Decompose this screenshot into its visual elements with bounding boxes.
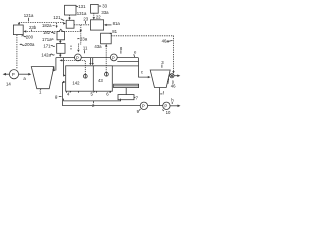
stub 171 down to feed line <box>59 53 61 55</box>
pump 8 <box>110 54 117 61</box>
wire dashed 23a vertical <box>78 25 80 50</box>
leader tilde 81 <box>110 32 112 35</box>
svg-text:142: 142 <box>72 81 80 86</box>
svg-text:121: 121 <box>53 15 61 20</box>
pump14 outlet left arrow <box>5 73 9 75</box>
box 121 <box>66 20 74 28</box>
box 22 (controller) <box>90 20 103 30</box>
leader tilde 200 <box>22 36 27 37</box>
leader tick 3 <box>161 65 163 68</box>
svg-text:P: P <box>12 72 15 77</box>
arrowhead into box200 right <box>23 30 26 32</box>
leader tick 121 <box>61 19 64 21</box>
svg-text:6: 6 <box>106 91 109 96</box>
svg-text:f: f <box>163 91 165 96</box>
box 7 <box>118 95 134 100</box>
arrowhead into box22 right <box>104 24 107 26</box>
arrowhead on 23a line <box>80 30 82 33</box>
arrowhead into box22 top <box>93 17 95 20</box>
svg-text:131a: 131a <box>77 11 87 16</box>
svg-text:1: 1 <box>39 90 42 95</box>
leader 182a arrow <box>53 23 57 26</box>
svg-text:b: b <box>53 66 56 71</box>
arrowhead into pump 11 <box>77 50 79 53</box>
double arrows into tank 43 <box>90 58 92 64</box>
box 81 <box>101 33 112 44</box>
leader tick 7 <box>134 96 135 98</box>
leader tick h <box>171 102 173 104</box>
svg-text:c: c <box>141 69 144 74</box>
box 131 <box>65 5 77 15</box>
wire dashed 81 to valve 46a <box>111 36 173 72</box>
leader tilde 171a <box>51 38 53 41</box>
svg-text:P: P <box>142 104 145 109</box>
recirculation riser g <box>61 82 63 106</box>
svg-text:121a: 121a <box>24 13 34 18</box>
sensor circle in tank 43 <box>105 72 109 76</box>
svg-text:P: P <box>164 104 167 109</box>
leader tilde 182 <box>51 32 55 33</box>
pump 14 <box>9 70 18 79</box>
tank divider wall <box>92 66 94 91</box>
riser b from hopper 1 <box>55 58 57 71</box>
leader tick 23 <box>85 21 87 24</box>
svg-text:14: 14 <box>6 81 11 86</box>
arrowhead c into hopper 3 <box>148 76 151 78</box>
svg-text:43a: 43a <box>94 44 102 49</box>
leader tick 46 <box>172 80 174 84</box>
svg-text:8: 8 <box>120 46 123 51</box>
hopper 3 bottom stem f <box>158 88 160 106</box>
svg-text:5: 5 <box>91 91 94 96</box>
leader tick 9 <box>139 109 140 111</box>
leader tick d <box>168 78 170 80</box>
leader tick f <box>160 93 162 95</box>
leader tick 1 <box>39 89 42 90</box>
wire dashed into box200 right (line 23b) <box>26 30 81 32</box>
leader tilde 142a <box>50 54 54 55</box>
collector vertical to hopper 3 (line c) <box>139 58 149 78</box>
pump14 to hopper1 line a <box>19 73 29 75</box>
arrowhead down to valve 46 <box>172 71 174 74</box>
wire dashed 121 right to box 22 <box>74 24 90 26</box>
svg-text:P: P <box>112 55 115 60</box>
svg-text:43: 43 <box>98 78 103 83</box>
svg-text:142a: 142a <box>41 53 51 58</box>
arrowhead into feeder 171 <box>59 41 61 43</box>
arrowhead b <box>53 69 56 72</box>
branch into tank 142 <box>63 58 65 76</box>
arrowhead left on sensor line <box>60 59 63 61</box>
channel bottom line <box>112 65 138 67</box>
connector 182 to 171 <box>59 40 61 42</box>
arrowhead onto feed line <box>59 55 61 57</box>
svg-text:P: P <box>76 55 79 60</box>
svg-text:171a: 171a <box>42 37 52 42</box>
svg-text:33: 33 <box>102 4 107 9</box>
svg-text:23: 23 <box>83 17 88 22</box>
svg-text:33a: 33a <box>101 10 109 15</box>
svg-text:81a: 81a <box>113 21 121 26</box>
svg-text:46: 46 <box>171 84 176 89</box>
arrowhead into box121 top <box>68 18 70 21</box>
hopper 1 <box>31 67 54 89</box>
pump10 outlet arrow h <box>170 105 178 107</box>
channel top line <box>117 60 138 62</box>
svg-text:11: 11 <box>83 46 88 51</box>
bottom pipe <box>62 105 140 107</box>
svg-text:h: h <box>171 97 174 102</box>
leader tick g <box>59 96 62 98</box>
leader tick e <box>133 54 136 57</box>
conveyor stub to box 7 <box>125 88 127 95</box>
svg-text:131: 131 <box>78 4 86 9</box>
svg-text:81: 81 <box>112 29 117 34</box>
box 33 <box>91 4 99 13</box>
small dashes left of pump 11 <box>70 46 72 50</box>
hopper 3 <box>150 70 170 88</box>
leader tilde 131 <box>76 5 78 8</box>
valve outlet arrow d <box>174 75 178 77</box>
wire dashed 43a sensor to box81 <box>105 46 107 72</box>
svg-text:3: 3 <box>161 60 164 65</box>
svg-text:d: d <box>167 79 170 84</box>
svg-text:10: 10 <box>166 110 171 115</box>
feeder box 182 <box>57 29 65 40</box>
sensor circle in tank 142 <box>83 74 87 78</box>
arrowhead up into box81 bottom <box>105 44 107 47</box>
arrowhead a into hopper 1 <box>28 73 31 76</box>
wire dashed 200a down to pump14 <box>16 35 18 69</box>
leader tilde 33 <box>99 5 101 8</box>
tank bank outer <box>66 66 113 91</box>
svg-text:171: 171 <box>43 44 51 49</box>
leader tick 8 <box>120 50 122 53</box>
svg-text:200: 200 <box>26 35 34 40</box>
tank feet <box>67 91 111 93</box>
svg-text:4: 4 <box>67 91 70 96</box>
conveyor <box>114 84 139 87</box>
svg-text:23b: 23b <box>29 25 37 30</box>
leader tick 23b <box>31 30 33 31</box>
wire 81a stub <box>106 24 111 26</box>
leader tick 121a <box>28 18 30 22</box>
leader tilde 200a <box>20 44 25 45</box>
feed line (pump line) <box>56 57 138 59</box>
pump 11 <box>75 54 82 61</box>
svg-text:a: a <box>23 76 26 81</box>
wire dashed 33 down to box 22 <box>93 13 95 17</box>
arrowhead into box200 top <box>18 23 20 26</box>
leader tilde 23a <box>77 38 79 41</box>
pump 9 <box>140 102 147 109</box>
wire dashed 121-to-200 <box>20 23 64 24</box>
svg-text:182a: 182a <box>42 23 52 28</box>
leader tick 11 <box>84 50 86 53</box>
leader tick 10 <box>162 110 164 111</box>
sensor dashed line 142 <box>62 60 86 74</box>
svg-text:23a: 23a <box>80 37 88 42</box>
box 200 <box>13 25 23 35</box>
pipe pump9 to pump10 <box>148 105 163 107</box>
wire dashed 131 to 121 <box>69 15 71 18</box>
svg-text:e: e <box>134 49 137 54</box>
svg-text:182: 182 <box>43 30 51 35</box>
leader tilde 171 <box>51 46 55 47</box>
svg-text:200a: 200a <box>25 42 35 47</box>
valve 46 <box>168 75 171 77</box>
arrowhead into box121 left <box>63 22 66 24</box>
arrowhead into tank142 left at g <box>63 81 66 83</box>
brace 2 <box>64 99 121 101</box>
svg-text:g: g <box>55 94 58 99</box>
svg-text:7: 7 <box>136 96 139 101</box>
arrowhead into tank142 left <box>63 74 65 76</box>
svg-text:22: 22 <box>96 15 101 20</box>
leader tick 46a <box>167 40 172 41</box>
feeder box 171 <box>57 44 65 54</box>
pump 10 <box>163 102 170 109</box>
